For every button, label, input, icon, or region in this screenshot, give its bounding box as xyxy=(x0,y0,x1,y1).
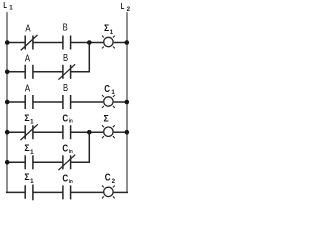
junction dot rung1 right rail xyxy=(125,40,130,45)
svg-text:B: B xyxy=(63,53,68,64)
junction dot rung4/rung5 branch xyxy=(87,130,92,135)
contact B (NC) rung2 xyxy=(58,64,75,80)
svg-text:Σ: Σ xyxy=(24,172,29,183)
svg-text:1: 1 xyxy=(30,149,34,156)
svg-text:L: L xyxy=(121,1,125,11)
wire rung3 seg3 xyxy=(71,101,104,103)
junction dot rung3 left rail xyxy=(5,100,10,105)
svg-text:C: C xyxy=(62,113,68,124)
label Cin rung5 xyxy=(62,144,73,155)
coil C1 xyxy=(102,95,115,108)
svg-text:A: A xyxy=(25,84,30,95)
label C2 coil xyxy=(105,173,116,185)
right power rail L2 xyxy=(126,12,128,192)
wire rung5 branch up to rung4 xyxy=(88,132,90,163)
junction dot rung4 right rail xyxy=(125,130,130,135)
wire rung3 seg4 xyxy=(114,101,128,103)
contact Sigma1 (NO) rung6 xyxy=(25,185,33,201)
wire rung3 seg2 xyxy=(33,101,63,103)
svg-text:A: A xyxy=(25,54,30,65)
svg-text:A: A xyxy=(25,23,30,34)
wire rung2 seg1 xyxy=(6,71,25,73)
svg-text:C: C xyxy=(104,84,110,95)
node L2 label xyxy=(121,1,131,13)
wire rung5 seg1 xyxy=(6,161,25,163)
coil Sigma xyxy=(102,125,115,138)
wire rung4 seg3 xyxy=(71,131,104,133)
wire rung2 branch up to rung1 xyxy=(88,43,90,73)
coil C2 xyxy=(102,186,115,199)
contact Cin (NO) rung6 xyxy=(63,185,71,199)
contact Cin (NO) rung4 xyxy=(63,125,71,139)
wire rung5 seg3 xyxy=(71,161,90,163)
svg-text:in: in xyxy=(69,149,73,155)
svg-text:in: in xyxy=(69,179,73,185)
wire rung6 seg1 xyxy=(6,191,25,193)
svg-text:C: C xyxy=(62,174,68,185)
svg-text:B: B xyxy=(63,23,68,34)
junction dot rung1/rung2 branch xyxy=(87,40,92,45)
left power rail L1 xyxy=(6,12,8,192)
contact Cin (NC) rung5 xyxy=(58,155,75,171)
svg-text:1: 1 xyxy=(111,89,115,96)
wire rung1 seg1 xyxy=(6,42,25,44)
wire rung1 seg2 xyxy=(33,42,63,44)
coil Sigma1 xyxy=(102,36,115,49)
label Cin rung4 xyxy=(62,113,73,124)
svg-text:Σ: Σ xyxy=(104,113,109,124)
junction dot rung1 left rail xyxy=(5,40,10,45)
wire rung2 seg2 xyxy=(33,71,63,73)
svg-text:2: 2 xyxy=(112,178,116,185)
svg-text:Σ: Σ xyxy=(104,23,109,34)
label Sigma1 rung5 xyxy=(24,143,34,156)
svg-text:B: B xyxy=(63,83,68,94)
svg-text:1: 1 xyxy=(30,119,34,126)
junction dot rung3 right rail xyxy=(125,100,130,105)
wire rung6 seg4 xyxy=(114,191,128,193)
label Sigma1 rung6 xyxy=(24,172,34,185)
contact Sigma1 (NO) rung5 xyxy=(25,155,33,169)
contact A (NC) rung1 xyxy=(21,35,38,51)
svg-text:L: L xyxy=(3,0,7,10)
wire rung6 seg3 xyxy=(71,191,104,193)
svg-text:1: 1 xyxy=(9,5,13,12)
wire rung3 seg1 xyxy=(6,101,25,103)
wire rung2 seg3 xyxy=(71,71,90,73)
svg-text:Σ: Σ xyxy=(24,143,29,154)
contact B (NO) rung3 xyxy=(63,95,71,109)
junction dot rung5 left rail xyxy=(5,160,10,165)
wire rung6 seg2 xyxy=(33,191,63,193)
contact A (NO) rung3 xyxy=(25,95,33,109)
svg-text:1: 1 xyxy=(110,29,114,36)
label Sigma1 rung4 xyxy=(24,113,34,126)
contact B (NO) rung1 xyxy=(63,36,71,50)
svg-text:1: 1 xyxy=(30,178,34,185)
wire rung1 seg4 xyxy=(114,42,128,44)
wire rung1 seg3 xyxy=(71,42,104,44)
svg-text:in: in xyxy=(69,119,73,125)
label C1 coil xyxy=(104,84,115,96)
svg-text:Σ: Σ xyxy=(24,113,29,124)
svg-text:2: 2 xyxy=(127,6,131,13)
svg-text:C: C xyxy=(105,173,111,184)
junction dot rung4 left rail xyxy=(5,130,10,135)
wire rung5 seg2 xyxy=(33,161,63,163)
label Cin rung6 xyxy=(62,174,73,185)
svg-text:C: C xyxy=(62,144,68,155)
contact Sigma1 (NC) rung4 xyxy=(20,124,37,140)
label Sigma1 coil xyxy=(104,23,114,36)
junction dot rung2 left rail xyxy=(5,70,10,75)
wire rung4 seg4 xyxy=(114,131,128,133)
wire rung4 seg2 xyxy=(33,131,63,133)
wire rung4 seg1 xyxy=(6,131,25,133)
node L1 label xyxy=(3,0,13,12)
contact A (NO) rung2 xyxy=(25,65,33,79)
